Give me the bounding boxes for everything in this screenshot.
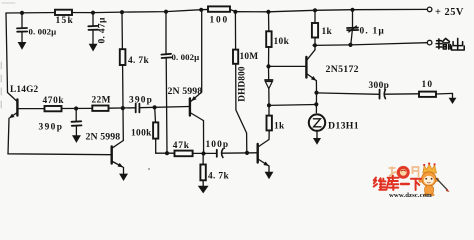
resistor 47k [175,151,193,157]
svg-text:0. 002µ: 0. 002µ [29,27,57,37]
svg-text:300p: 300p [369,81,390,91]
watermark logo: red circle emblem [397,166,410,179]
svg-text:1k: 1k [322,27,333,37]
capacitor 0.002u first [17,13,27,42]
node output rail collector [313,43,317,47]
svg-text:22M: 22M [92,96,111,106]
svg-text:D13H1: D13H1 [328,121,359,132]
resistor 1k upper [312,8,318,45]
resistor 100k [153,107,158,153]
wire mid 390p series to Q2 base [139,107,189,108]
wire mid 22M to 390p series [109,107,136,109]
wire output rail [313,43,427,46]
label 输出 (output) glyphs [436,38,464,50]
svg-text:2N 5998: 2N 5998 [168,86,203,97]
wire DHD800 drop (slanted) [236,64,247,153]
svg-text:390p: 390p [39,122,64,132]
resistor 4.7k upper [120,12,126,140]
wire 47k to 100p [193,152,217,154]
svg-text:15k: 15k [56,16,75,26]
watermark logo: 维库一下 red glyphs [374,176,421,190]
ground under 0.47u [89,44,98,52]
watermark logo: mascot brush [436,178,447,190]
node D13H1 top [314,102,318,106]
node diode/base junction [266,64,270,68]
capacitor 0.47u [88,13,98,44]
capacitor 390p series [136,104,140,113]
resistor 22M [92,106,108,111]
resistor 100 (series in rail) [208,6,230,11]
watermark logo: mascot body [425,186,434,195]
capacitor 390p shunt [72,109,82,136]
resistor 10M [233,12,238,64]
svg-text:DHD800: DHD800 [236,66,246,102]
node bottom x203.5 [201,151,205,155]
node emitter / 300p junction [314,91,318,95]
terminal +25V [427,7,432,12]
node top rail x93 [91,11,95,15]
svg-text:390p: 390p [129,95,153,105]
capacitor 300p [380,90,420,99]
transistor Q1b 2N5998 lower [112,141,124,174]
svg-text:100: 100 [210,16,229,26]
resistor 4.7k lower [200,154,205,186]
wire emitter down to D13H1 [315,93,317,113]
svg-text:2N 5998: 2N 5998 [86,131,121,142]
node mid x76 [74,106,78,110]
svg-text:10M: 10M [240,52,259,62]
wire from 1k junction to D13H1 node [269,104,316,107]
scan speck [148,168,150,170]
terminal output [427,40,432,45]
wire left feedback vertical (bottom section) + bottom wire to Q1b base [8,118,111,154]
wire 10 to ground [436,93,453,97]
capacitor 0.002u second [161,12,171,154]
ground under 4.7k lower [198,186,209,194]
transistor Q2 2N5998 upper [190,92,204,153]
svg-text:+ 25V: + 25V [435,7,464,18]
ground under Q3 emitter [265,172,274,179]
transistor Q1 L14G2 [8,93,45,119]
svg-text:0. 47µ: 0. 47µ [98,17,108,43]
ground under D13H1 [313,138,321,145]
node top rail x22 [20,11,24,15]
svg-text:100k: 100k [131,128,152,138]
node bottom x167 [165,151,169,155]
svg-text:47k: 47k [173,141,190,151]
svg-text:1k: 1k [274,121,285,131]
transistor Q3 (bottom middle) [258,140,269,172]
scan artifact top left [2,2,15,4]
resistor 15k [55,10,72,15]
node mid x122.8 [121,106,125,110]
ground under 390p shunt [72,135,81,143]
node top rail x201 [199,8,203,12]
svg-text:www.dzsc.com: www.dzsc.com [389,192,432,198]
node top rail x235.5 [233,10,237,14]
wire left feedback vertical (top section, Q1 collector) [6,13,8,93]
node top rail 0.1u [350,8,354,12]
watermark logo: mascot crown [423,164,437,173]
svg-text:4. 7k: 4. 7k [128,56,149,66]
svg-text:0. 002µ: 0. 002µ [172,52,200,62]
node collector of Q3 / 1k junction [267,103,271,107]
wire 300p branch [317,93,380,94]
watermark logo: faint text 找芯片 [389,167,420,178]
wire Q2 collector drop [201,10,203,92]
scan artifact left edge [0,62,2,114]
diode (vertical, cathode up) [265,66,273,105]
node top rail x166 [164,10,168,14]
watermark logo: mascot feet [424,194,434,196]
wire mid 470k to 22M [62,107,93,109]
wire bottom 100k to 47k [156,152,175,154]
watermark logo: mascot crown dots [423,163,436,167]
resistor 1k lower [267,105,272,139]
watermark logo: mascot face [424,176,434,185]
node top rail x122 [120,10,124,14]
capacitor 100p [217,149,257,158]
svg-text:4. 7k: 4. 7k [208,171,229,181]
wire base of 2N5172 [269,65,306,67]
resistor 10 [419,92,436,97]
ground right end [449,98,457,104]
capacitor 0.1u [347,10,358,45]
svg-text:2N5172: 2N5172 [326,64,359,75]
resistor 10k [266,12,271,67]
watermark logo: mascot head [422,172,436,186]
svg-text:10k: 10k [274,37,290,47]
transistor Q4 2N5172 [306,45,316,92]
svg-text:0. 1µ: 0. 1µ [360,27,385,37]
node output rail 0.1u [348,43,352,47]
node mid x154.5 [153,105,157,109]
svg-text:100p: 100p [206,140,230,150]
svg-text:10: 10 [422,80,434,90]
svg-text:L14G2: L14G2 [10,85,39,95]
ground under 0.002u first [18,42,27,50]
wire top +25V rail [6,9,427,13]
watermark logo: mascot hands [419,179,422,182]
node top rail x268.5 [266,10,270,14]
svg-text:470k: 470k [43,96,65,106]
lamp D13H1 [309,114,325,138]
node bottom x247 [245,151,249,155]
resistor 470k [45,106,62,111]
ground under Q1b emitter [119,174,128,181]
